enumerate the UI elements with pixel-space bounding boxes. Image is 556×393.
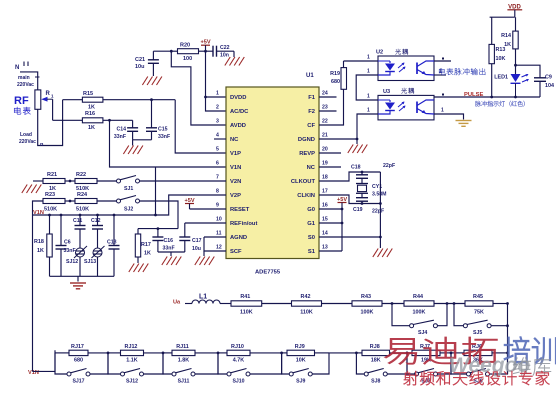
svg-text:V2N: V2N (230, 179, 241, 185)
svg-text:V1N: V1N (230, 165, 241, 171)
optocoupler U3 LED (378, 100, 406, 114)
crystal Y1 3.58MHz (356, 184, 386, 198)
svg-text:SJ9: SJ9 (296, 379, 305, 385)
label V1N (red) (33, 210, 44, 216)
svg-text:RJ10: RJ10 (231, 344, 244, 350)
wire V1N rail (33, 214, 156, 217)
svg-text:4: 4 (216, 133, 219, 139)
ground under C21 (142, 77, 162, 86)
svg-text:33nF: 33nF (163, 246, 175, 252)
svg-text:8: 8 (216, 189, 219, 195)
switch SJ7 (S7) (406, 352, 451, 385)
wire R19 to U2 anode (344, 55, 379, 62)
wire pin8 V2P (156, 195, 227, 215)
svg-text:17: 17 (322, 189, 328, 195)
wire cap bottoms (133, 139, 152, 141)
capacitor C19 22pF (353, 198, 384, 215)
svg-text:SJ17: SJ17 (72, 379, 84, 385)
resistor RJ8 18K (362, 344, 390, 364)
svg-text:DGND: DGND (298, 137, 315, 143)
svg-text:104: 104 (545, 83, 554, 89)
svg-text:510K: 510K (44, 207, 57, 213)
pin 4 NC stub (214, 138, 226, 140)
optocoupler U3 transistor (417, 100, 434, 114)
svg-text:10n: 10n (220, 53, 229, 59)
svg-text:1: 1 (367, 69, 370, 75)
svg-text:C22: C22 (220, 45, 230, 51)
svg-text:1.8K: 1.8K (178, 358, 189, 364)
svg-text:L1: L1 (199, 294, 207, 301)
svg-text:U3: U3 (383, 89, 390, 95)
svg-text:2: 2 (216, 105, 219, 111)
svg-text:R19: R19 (330, 71, 340, 77)
wire N to potentiometer top (20, 72, 38, 90)
node Ua (red) (173, 300, 181, 306)
resistor R23 510K (43, 192, 65, 213)
svg-text:1K: 1K (504, 42, 511, 48)
label 电表脉冲输出 (439, 68, 485, 75)
wire S1 pin13 (319, 250, 342, 252)
svg-text:main: main (18, 75, 30, 81)
wire AGND SCF (204, 237, 226, 256)
svg-text:AGND: AGND (230, 235, 247, 241)
svg-text:1: 1 (441, 108, 444, 114)
power +5V (RESET) (184, 198, 194, 209)
svg-text:R23: R23 (45, 192, 55, 198)
capacitor C18 22pF (351, 163, 395, 184)
resistor R14 1K (501, 17, 518, 74)
svg-text:18: 18 (322, 175, 328, 181)
svg-text:10: 10 (216, 217, 222, 223)
svg-text:1: 1 (367, 94, 370, 100)
svg-text:RJ11: RJ11 (176, 344, 189, 350)
wire Ua to L1 (185, 303, 192, 305)
wire LED bottom rail (492, 96, 540, 98)
svg-text:220Vac: 220Vac (17, 82, 34, 88)
resistor R22 510K (75, 172, 97, 192)
svg-text:33nF: 33nF (158, 134, 170, 140)
svg-text:33nF: 33nF (114, 134, 126, 140)
svg-text:1K: 1K (144, 251, 151, 257)
svg-text:SJ4: SJ4 (418, 330, 427, 336)
svg-text:F2: F2 (308, 109, 315, 115)
resistor R43 100K (352, 294, 382, 316)
svg-text:R22: R22 (76, 172, 86, 178)
svg-text:ADE7755: ADE7755 (255, 270, 281, 276)
svg-text:LED1: LED1 (494, 75, 508, 81)
svg-text:100K: 100K (413, 310, 426, 316)
wire CLKIN (319, 195, 362, 204)
resistor R13 10K (489, 17, 505, 98)
trimmer capacitor S12 (66, 246, 87, 276)
switch S22 (117, 196, 140, 213)
wire row2 to switch (97, 200, 117, 202)
wire V1N rail to pin6 drop (154, 167, 157, 216)
svg-text:SJ11: SJ11 (178, 379, 190, 385)
wire row2 to RC filter (140, 201, 179, 229)
watermark 培训 (blue) (504, 337, 556, 364)
ground under crystal (373, 249, 393, 258)
pin 24 F1 stub (319, 96, 337, 98)
svg-text:22pF: 22pF (372, 209, 384, 215)
wire bottom chain rail (55, 352, 508, 354)
svg-text:CF: CF (307, 123, 315, 129)
optocoupler U2 LED (378, 61, 406, 75)
svg-text:G0: G0 (307, 207, 315, 213)
ground (olive) U3 emitter (456, 121, 472, 127)
svg-text:R16: R16 (85, 111, 95, 117)
switch SJ8 (S8) (355, 352, 407, 385)
resistor RJ9 10K (287, 344, 315, 364)
svg-text:680: 680 (74, 358, 83, 364)
wire V1N into chain (33, 350, 56, 371)
svg-text:SJ12: SJ12 (66, 259, 78, 265)
wire S0 pin14 (319, 236, 380, 238)
wire AVDD node (153, 50, 172, 53)
svg-text:N: N (15, 65, 19, 71)
switch S44 branch (391, 302, 449, 336)
svg-text:RJ9: RJ9 (295, 344, 305, 350)
resistor RJ6 36K (464, 344, 492, 364)
op-amp U1 ADE7755 (metering IC) (216, 73, 328, 276)
wire U3 collector PULSE line (434, 94, 492, 98)
svg-text:75K: 75K (474, 310, 484, 316)
svg-text:680: 680 (331, 79, 340, 85)
wire chain right connector (506, 302, 509, 374)
svg-text:V1P: V1P (230, 151, 241, 157)
wire row1 to pin7 V2N (140, 180, 227, 182)
svg-text:U2: U2 (376, 50, 383, 56)
svg-text:CLKIN: CLKIN (297, 193, 315, 199)
svg-text:RJ12: RJ12 (125, 344, 138, 350)
svg-text:20: 20 (322, 147, 328, 153)
capacitor C17 10uF (REF) (179, 223, 201, 252)
capacitor C6 33nF (56, 215, 76, 276)
svg-text:24: 24 (322, 91, 328, 97)
svg-text:C19: C19 (353, 207, 363, 213)
wire R1 wiper tail (52, 99, 54, 120)
capacitor C11 (73, 215, 86, 248)
wire G0 pin16 (319, 208, 342, 210)
svg-text:13: 13 (322, 245, 328, 251)
svg-text:220Vac: 220Vac (19, 139, 36, 145)
wire G1 pin15 (319, 222, 342, 224)
watermark 易迪拓 (red) (385, 337, 497, 364)
resistor R21 1K (43, 172, 65, 192)
svg-text:G1: G1 (307, 221, 316, 227)
svg-text:U1: U1 (306, 73, 314, 79)
svg-text:3: 3 (216, 119, 219, 125)
watermark Weegoo (grey) (449, 354, 530, 377)
svg-text:3.58M: 3.58M (372, 192, 386, 198)
optocoupler U2 box (376, 49, 434, 81)
switch S21 (117, 176, 140, 193)
LED LED1 (494, 74, 529, 98)
svg-text:1K: 1K (88, 125, 95, 131)
svg-text:10u: 10u (135, 64, 144, 70)
svg-text:R45: R45 (473, 294, 483, 300)
resistor RJ11 1.8K (172, 344, 195, 364)
svg-text:C18: C18 (351, 165, 361, 171)
resistor R19 680 (330, 61, 346, 89)
svg-text:1K: 1K (88, 105, 95, 111)
ground DGND (348, 145, 368, 154)
label V1N bottom (red) (28, 370, 39, 376)
svg-text:15: 15 (322, 217, 328, 223)
optocoupler U3 box (378, 88, 434, 120)
switch S45 branch (453, 302, 508, 336)
switch SJ17 (S17) (55, 353, 108, 385)
wire U3 cathode to DGND (356, 114, 378, 140)
potentiometer R1 body (35, 77, 41, 109)
svg-text:10K: 10K (496, 56, 506, 62)
switch SJ10 (S10) (217, 352, 282, 385)
svg-text:SJ5: SJ5 (473, 330, 482, 336)
svg-text:23: 23 (322, 105, 328, 111)
svg-text:RJ17: RJ17 (71, 344, 84, 350)
wire RESET pin9 (190, 208, 227, 210)
svg-text:C14: C14 (116, 127, 126, 133)
wire row2 mid (65, 200, 75, 203)
svg-text:SJ2: SJ2 (124, 207, 133, 213)
switch SJ6 (S6) (450, 352, 508, 385)
ground1 (filter) (162, 257, 182, 266)
svg-text:110K: 110K (300, 310, 313, 316)
wire +5V to DVDD pin1 (204, 51, 226, 98)
svg-text:110K: 110K (240, 310, 253, 316)
label 脉冲指示灯(红色) (475, 101, 525, 107)
ground row1 (V2N divider) (22, 181, 43, 193)
svg-text:C15: C15 (158, 127, 168, 133)
resistor R42 110K (292, 294, 322, 316)
inductor L1 (192, 294, 220, 304)
svg-text:R44: R44 (413, 294, 423, 300)
ground under C14 C15 (123, 140, 142, 154)
svg-text:C13: C13 (107, 240, 117, 246)
resistor R18 1K (34, 215, 52, 276)
wire network bottom rail (50, 275, 115, 277)
capacitor C9 104 (514, 64, 554, 97)
capacitor C12 (91, 215, 103, 248)
svg-text:18K: 18K (371, 358, 381, 364)
pin 19 NC stub (319, 166, 341, 168)
svg-text:S1: S1 (308, 249, 316, 255)
power +5V (logic pins) (337, 197, 347, 251)
wire U3 pin2 label (367, 108, 370, 114)
svg-text:1.1K: 1.1K (126, 358, 137, 364)
resistor R41 110K (231, 294, 262, 316)
svg-text:16: 16 (322, 203, 328, 209)
svg-text:C16: C16 (164, 238, 174, 244)
svg-text:10K: 10K (296, 358, 306, 364)
svg-text:R: R (46, 91, 51, 97)
svg-text:R21: R21 (47, 172, 57, 178)
switch SJ11 (S11) (162, 352, 218, 385)
wire CLKOUT (319, 172, 380, 181)
wire V1N left rail (32, 215, 34, 371)
svg-text:RESET: RESET (230, 207, 250, 213)
svg-text:C11: C11 (73, 218, 82, 224)
wire U2 collector stub (434, 58, 451, 62)
svg-text:11: 11 (216, 231, 222, 237)
wire V1P to pin5 (175, 100, 226, 153)
capacitor C15 33nF (146, 98, 170, 140)
power VDD (507, 4, 522, 17)
svg-text:33nF: 33nF (64, 248, 76, 254)
wire AVDD to pin3 route (171, 51, 226, 125)
label Load 220Vac (19, 132, 36, 145)
resistor R45 75K (465, 294, 493, 316)
switch SJ12 (S12) (107, 352, 163, 385)
svg-text:REFin/out: REFin/out (230, 221, 257, 227)
node N (mains neutral terminal) (15, 62, 28, 72)
earth ground bottom-left (70, 276, 86, 289)
svg-text:RF: RF (14, 95, 29, 107)
svg-text:R15: R15 (83, 91, 93, 97)
potentiometer R1 wiper arrow (41, 97, 52, 102)
svg-text:6: 6 (216, 161, 219, 167)
svg-text:V2P: V2P (230, 193, 241, 199)
resistor R20 100 (supply filter) (171, 43, 213, 63)
svg-text:1: 1 (367, 55, 370, 61)
capacitor C16 33nF (152, 229, 174, 252)
switch SJ9 (S9) (280, 352, 329, 385)
svg-text:R14: R14 (501, 33, 511, 39)
svg-text:SJ1: SJ1 (124, 186, 133, 192)
label R1 (46, 91, 55, 99)
svg-text:14: 14 (322, 231, 328, 237)
svg-text:C12: C12 (91, 218, 101, 224)
svg-text:10u: 10u (192, 246, 201, 252)
svg-text:S0: S0 (308, 235, 315, 241)
svg-text:100K: 100K (361, 310, 374, 316)
ground2 (AGND) (195, 257, 215, 266)
svg-text:1: 1 (367, 108, 370, 114)
svg-text:NC: NC (230, 137, 239, 143)
resistor RJ7 19K (412, 344, 440, 364)
svg-text:F1: F1 (308, 95, 316, 101)
wire REFin pin10 (185, 222, 226, 224)
svg-text:R43: R43 (361, 294, 371, 300)
svg-text:PULSE: PULSE (464, 92, 483, 98)
svg-text:Ua: Ua (173, 300, 181, 306)
ground under R17 (129, 264, 149, 273)
wire U2 emitter stub (434, 69, 446, 76)
resistor R17 1K (135, 229, 151, 263)
svg-text:C17: C17 (192, 238, 202, 244)
label RF (blue) (14, 95, 31, 115)
wire VDD rail (490, 16, 515, 18)
svg-text:RJ8: RJ8 (370, 344, 380, 350)
svg-text:21: 21 (322, 133, 328, 139)
svg-text:R17: R17 (141, 242, 151, 248)
wire U2 pin2 label (367, 69, 370, 75)
svg-text:9: 9 (216, 203, 219, 209)
svg-text:R41: R41 (240, 294, 250, 300)
svg-text:R24: R24 (77, 192, 88, 198)
svg-text:100: 100 (183, 56, 192, 62)
svg-text:12: 12 (216, 245, 222, 251)
resistor R44 100K (404, 294, 434, 316)
svg-text:CLKOUT: CLKOUT (291, 179, 316, 185)
svg-text:R42: R42 (301, 294, 311, 300)
svg-text:R20: R20 (180, 43, 190, 49)
svg-text:SCF: SCF (230, 249, 242, 255)
svg-text:C21: C21 (135, 57, 145, 63)
wire row1 mid (65, 180, 75, 183)
label PULSE (red) (464, 92, 483, 98)
wire RC top rail (138, 227, 178, 230)
svg-text:1: 1 (216, 91, 219, 97)
svg-text:DVDD: DVDD (230, 95, 246, 101)
svg-text:SJ12: SJ12 (126, 379, 138, 385)
wire U2 cathode to U3 anode (356, 75, 378, 100)
wire DGND pin21 (319, 139, 357, 144)
svg-text:Load: Load (20, 132, 32, 138)
wire CF pin22 to R19 (319, 89, 344, 125)
svg-text:SJ8: SJ8 (371, 379, 380, 385)
ground under C22 (225, 51, 245, 65)
svg-text:19: 19 (322, 161, 328, 167)
svg-text:REVP: REVP (299, 151, 315, 157)
pin 23 F2 stub (319, 110, 337, 112)
optocoupler U2 transistor (417, 61, 434, 75)
svg-text:n: n (40, 142, 44, 148)
svg-text:C9: C9 (545, 75, 552, 81)
resistor RJ12 1.1K (121, 344, 144, 364)
wire +5V to ACDC pin2 (206, 97, 227, 111)
resistor R24 510K (75, 192, 97, 213)
svg-text:C6: C6 (64, 240, 71, 246)
power +5V (top) (200, 40, 210, 53)
wire row1 to switch (97, 180, 117, 182)
svg-text:22pF: 22pF (383, 163, 395, 169)
trimmer capacitor S13 (84, 246, 105, 276)
node n (load terminal) (40, 142, 44, 148)
resistor R16 1K (V1N input) (53, 111, 133, 131)
svg-text:7: 7 (216, 175, 219, 181)
resistor R15 1K (V1P input) (63, 91, 176, 111)
svg-text:AVDD: AVDD (230, 123, 246, 129)
svg-text:4.7K: 4.7K (233, 358, 244, 364)
wire cap bottoms to ground1 (158, 252, 185, 256)
label main 220Vac (17, 75, 34, 88)
svg-text:R18: R18 (34, 239, 44, 245)
svg-text:NC: NC (307, 165, 316, 171)
wire row2 left (to V1N rail) (33, 201, 44, 215)
capacitor C21 10uF (AVDD decoupling) (135, 51, 159, 76)
capacitor C14 33nF (114, 120, 138, 140)
resistor RJ10 4.7K (227, 344, 250, 364)
svg-text:22: 22 (322, 119, 328, 125)
svg-text:SJ10: SJ10 (232, 379, 244, 385)
wire top chain rail (220, 303, 508, 305)
svg-text:510K: 510K (76, 207, 89, 213)
watermark 射频和天线设计专家 (red) (404, 371, 550, 385)
capacitor C13 (107, 215, 120, 276)
wire pot bottom to load (38, 100, 63, 146)
svg-text:SJ13: SJ13 (84, 259, 96, 265)
watermark 维库 (grey) (513, 357, 551, 375)
wire U3 emitter (434, 108, 464, 120)
svg-text:AC/DC: AC/DC (230, 109, 249, 115)
svg-text:1K: 1K (37, 248, 44, 254)
wire V1N to pin6 (110, 120, 227, 167)
resistor RJ17 680 (69, 344, 88, 364)
svg-text:5: 5 (216, 147, 219, 153)
capacitor C22 10nF (213, 45, 234, 59)
wire crystal right vertical (379, 172, 382, 248)
